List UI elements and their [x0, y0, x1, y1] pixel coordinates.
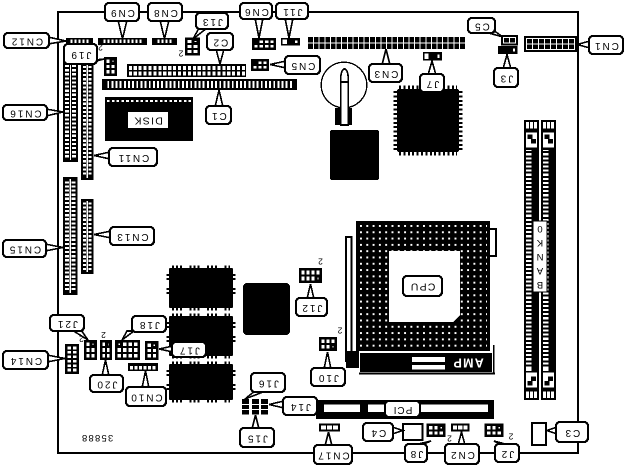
svg-text:AMP: AMP	[452, 356, 483, 370]
label C1	[206, 90, 231, 124]
capacitor C4 crystal	[403, 424, 423, 440]
connector CN9 header comb	[98, 38, 147, 45]
svg-text:CN5: CN5	[290, 60, 316, 71]
connector J16 3-pin header	[242, 399, 249, 415]
svg-text:J14: J14	[289, 401, 311, 412]
svg-text:J2: J2	[500, 448, 514, 459]
svg-text:DISK: DISK	[133, 115, 163, 127]
label CN10	[126, 371, 166, 406]
pin-2 label of J10	[337, 326, 342, 336]
CPU label	[403, 276, 442, 296]
connector J8 pin header	[427, 424, 446, 438]
memory chip U3	[168, 267, 234, 309]
svg-text:2: 2	[337, 326, 342, 336]
socket lever bar AMP	[346, 345, 495, 374]
svg-text:CN1: CN1	[593, 40, 619, 51]
connector C2 header comb	[127, 64, 246, 77]
connector CN8 header comb	[152, 38, 177, 45]
pin-2 label of J21	[79, 334, 84, 344]
label C3	[547, 422, 588, 442]
svg-text:2: 2	[508, 432, 513, 442]
svg-text:A: A	[536, 265, 543, 276]
svg-text:CPU: CPU	[410, 281, 436, 293]
motherboard outline	[58, 12, 578, 453]
label J3	[494, 55, 518, 88]
connector CN1 rear I/O comb	[525, 37, 576, 51]
svg-text:J17: J17	[178, 345, 200, 356]
svg-text:CN14: CN14	[9, 355, 42, 366]
svg-text:B: B	[537, 279, 543, 290]
svg-text:J18: J18	[138, 319, 160, 330]
connector J20 pin header	[100, 340, 112, 360]
connector CN2 header	[451, 424, 470, 432]
label J15	[240, 415, 274, 447]
label C4	[363, 423, 403, 441]
svg-text:J11: J11	[281, 6, 302, 17]
connector CN14 vertical header	[65, 344, 79, 374]
DISK drive block	[105, 97, 193, 141]
svg-text:2: 2	[178, 49, 183, 59]
svg-text:J15: J15	[246, 433, 268, 444]
label CN9	[105, 3, 139, 39]
label CN15	[3, 240, 63, 257]
connector CN16 vertical header	[63, 61, 78, 162]
label J12	[296, 284, 327, 316]
label C5	[468, 18, 503, 37]
pin-2 label of J2	[508, 432, 513, 442]
svg-text:CN10: CN10	[129, 392, 162, 403]
PCI slot	[316, 400, 494, 419]
memory chip U5	[168, 363, 234, 401]
label J10	[311, 352, 345, 386]
svg-text:2: 2	[98, 43, 103, 53]
svg-text:CN8: CN8	[152, 7, 178, 18]
board number 35888	[81, 432, 113, 443]
connector CN15 vertical header	[63, 177, 78, 295]
connector CN10 header comb	[128, 363, 158, 371]
label C2	[207, 33, 233, 64]
connector J19 pin header	[104, 57, 117, 76]
pin-2 label of CN2	[447, 434, 452, 444]
svg-text:CN9: CN9	[109, 7, 135, 18]
connector CN17 header	[319, 424, 340, 432]
svg-text:C1: C1	[210, 110, 227, 121]
chip U6 (square QFP)	[243, 283, 290, 335]
label CN2	[445, 432, 479, 464]
svg-text:CN15: CN15	[8, 244, 41, 255]
connector J21 pin header	[84, 340, 97, 360]
connector J2 pin header	[485, 424, 504, 438]
connector J14 3-pin header	[261, 399, 268, 415]
connector J3 jumper	[498, 46, 518, 54]
pin-2 label of J20	[101, 330, 106, 340]
svg-text:J7: J7	[425, 78, 439, 89]
connector J17 pin header	[145, 341, 159, 360]
svg-text:J16: J16	[257, 378, 279, 389]
svg-text:2: 2	[447, 434, 452, 444]
svg-text:CN11: CN11	[117, 152, 149, 163]
svg-text:J3: J3	[499, 73, 513, 84]
label J13	[193, 13, 228, 39]
svg-text:CN16: CN16	[8, 108, 41, 119]
DIMM socket slot 1	[524, 120, 539, 400]
connector J12 pin header	[299, 268, 322, 283]
svg-text:K: K	[536, 237, 543, 248]
BANK0 label	[533, 221, 547, 292]
DIMM socket slot 2	[541, 120, 556, 400]
connector J11 pin header	[281, 38, 300, 46]
label J19	[64, 44, 104, 64]
connector C1 slot comb	[102, 79, 297, 90]
PCI label	[385, 401, 420, 417]
pin-2 label of J13	[178, 49, 183, 59]
battery BT1 with polarity pin	[321, 62, 367, 125]
svg-text:CN12: CN12	[10, 36, 43, 47]
svg-text:C2: C2	[212, 37, 229, 48]
label CN3	[369, 49, 402, 82]
svg-text:J10: J10	[317, 372, 339, 383]
label CN1	[577, 36, 623, 54]
label J2	[494, 441, 519, 462]
socket hinge bar right	[489, 229, 496, 256]
connector CN11 vertical header	[81, 61, 94, 180]
connector CN3 long header comb	[308, 37, 465, 49]
label CN17	[314, 432, 352, 464]
svg-text:C3: C3	[564, 427, 581, 438]
label CN14	[3, 351, 65, 369]
connector J13 pin header	[185, 38, 200, 56]
svg-text:J19: J19	[70, 49, 92, 60]
connector J15 3-pin header	[252, 399, 259, 415]
connector J10 pin header	[319, 337, 337, 351]
label J16	[245, 373, 285, 399]
capacitor C3	[532, 423, 546, 445]
connector CN5 pin header	[251, 59, 269, 71]
label CN16	[3, 105, 63, 120]
label J11	[276, 3, 308, 38]
chip U2 (flash BIOS)	[330, 130, 379, 180]
connector J7 jumper	[423, 52, 442, 61]
svg-text:0: 0	[537, 223, 542, 234]
label CN13	[94, 227, 154, 245]
label CN8	[148, 3, 182, 39]
label CN11	[94, 148, 157, 166]
svg-text:35888: 35888	[81, 432, 113, 443]
connector C5 jumper	[502, 36, 517, 45]
label J18	[122, 316, 166, 340]
svg-text:J12: J12	[301, 302, 323, 313]
svg-text:CN17: CN17	[316, 450, 349, 461]
svg-text:J20: J20	[96, 379, 118, 390]
svg-text:C4: C4	[370, 427, 387, 438]
connector J18 pin header	[115, 340, 140, 360]
chip U1 (chipset QFP)	[396, 88, 461, 154]
label J14	[269, 397, 317, 415]
svg-text:CN2: CN2	[449, 449, 475, 460]
svg-text:J21: J21	[56, 318, 78, 329]
memory chip U4	[168, 315, 234, 357]
svg-text:J8: J8	[409, 448, 423, 459]
socket lever bar left	[346, 237, 352, 361]
pin-2 label of J19	[98, 43, 103, 53]
label CN5	[270, 56, 320, 74]
label J17	[159, 342, 206, 357]
label J7	[420, 61, 444, 92]
svg-text:CN6: CN6	[243, 6, 269, 17]
label J20	[90, 360, 123, 392]
svg-text:PCI: PCI	[393, 404, 413, 415]
svg-text:CN13: CN13	[115, 231, 148, 242]
svg-text:CN3: CN3	[373, 68, 399, 79]
svg-text:J13: J13	[201, 16, 223, 27]
svg-text:2: 2	[318, 257, 323, 267]
svg-text:N: N	[536, 251, 543, 262]
connector CN6 pin header	[252, 38, 276, 50]
svg-text:2: 2	[101, 330, 106, 340]
label CN6	[240, 3, 272, 38]
label J8	[405, 441, 431, 462]
CPU socket (PGA)	[356, 221, 490, 351]
connector CN13 vertical header	[81, 199, 94, 274]
connector CN12 header comb	[66, 38, 93, 45]
label J21	[50, 315, 88, 340]
label CN12	[4, 33, 66, 48]
pin-2 label of J12	[318, 257, 323, 267]
svg-text:C5: C5	[473, 21, 490, 32]
